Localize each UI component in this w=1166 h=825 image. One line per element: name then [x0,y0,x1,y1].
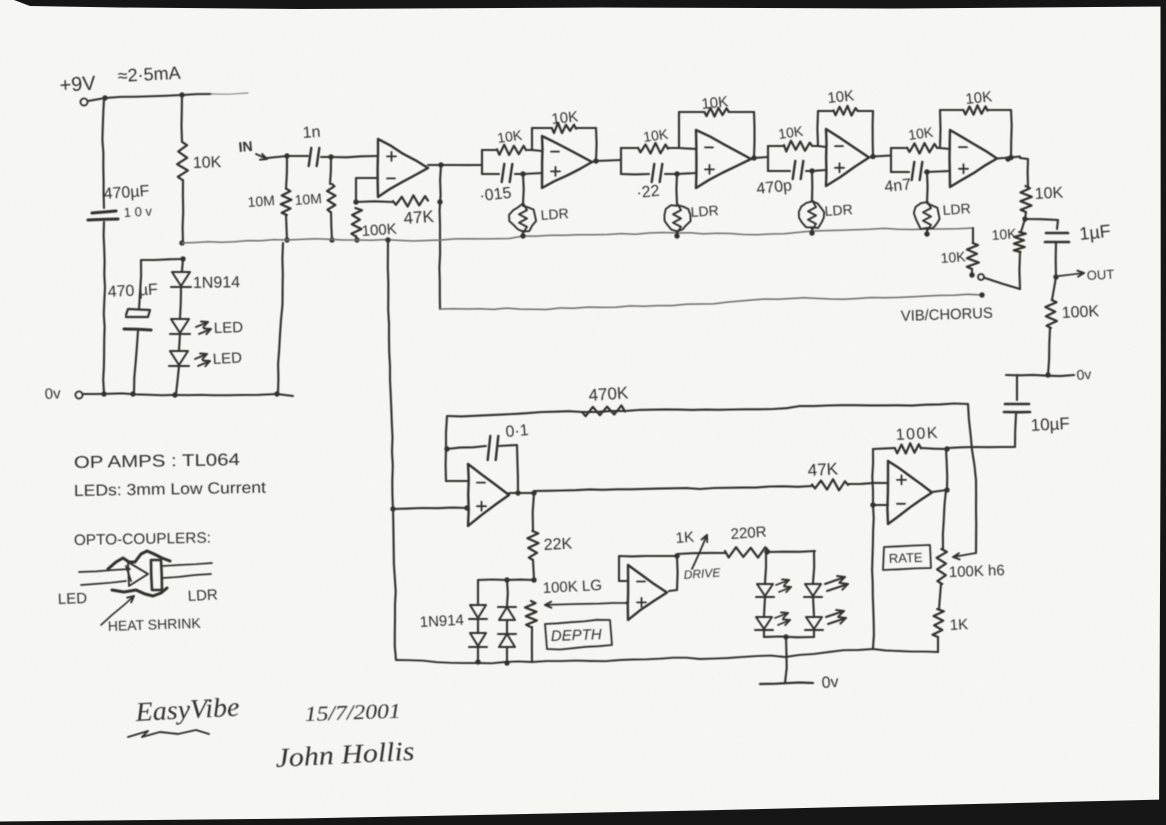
wire bus end to 10K mixA [972,228,974,243]
diode 1N914 A2 [469,633,487,647]
svg-text:LED: LED [58,590,88,608]
wire depth wiper to U7 plus [626,602,628,603]
wire divider vertical [872,449,874,648]
svg-text:OPTO-COUPLERS:: OPTO-COUPLERS: [74,530,211,549]
svg-text:1n: 1n [302,124,321,142]
junction depth node [531,577,536,582]
wire rail faint tail [211,93,248,94]
wire U5 fb left vertical [446,416,447,481]
svg-text:RATE: RATE [889,550,924,566]
stage 4 resistor 10K series [907,143,937,154]
resistor 10K bias [177,142,188,180]
wire 10K out bottom [1025,212,1026,219]
stage 2 junction plus-LDR [674,171,679,176]
svg-text:10M: 10M [294,190,322,208]
op-amp U5 integrator [468,464,509,526]
wire U6 minus to divider [873,504,888,506]
arrow IN [256,154,267,160]
junction bias bus start [179,240,184,245]
label LED D2 [214,319,244,337]
wire diode chain lead3 [179,334,180,350]
stage 2 junction out-fb [751,155,756,160]
label OUT [1086,267,1114,283]
label LDR opto [187,586,218,605]
label 100K schmitt [895,425,939,444]
svg-text:1µF: 1µF [1078,221,1111,244]
stage 3 label 10K feedback [827,87,855,107]
stage 2 wire fb rail left [679,111,705,113]
stage 3 wire LDR bottom lead [811,228,813,233]
wire cap 0.1 lead [447,446,486,449]
stage 1 wire cap to plus [515,173,542,174]
wire bias bus [182,228,973,243]
junction U1 out node [438,162,443,167]
box RATE [883,545,931,570]
resistor 470K [582,406,625,417]
stage 4 wire bottom path lead [891,171,909,173]
title EasyVibe [134,692,240,727]
label +9V [59,72,97,97]
svg-text:LED: LED [214,319,244,337]
opto sketch wires left [79,569,130,585]
label RATE [889,550,924,566]
diode 1N914 B1 [498,607,516,620]
stage 1 junction out-fb [593,158,598,163]
wire U5 out to 22K [533,493,534,531]
stage 4 label 10K feedback [965,88,993,108]
label 100K load [1061,303,1100,322]
wire LED B bottom [813,630,815,637]
stage 4 wire LDR bottom lead [926,229,928,234]
stage 3 junction out-fb [870,154,875,159]
label DEPTH [551,626,603,645]
stage 3 resistor 10K feedback [834,106,858,116]
svg-text:15/7/2001: 15/7/2001 [304,699,401,726]
svg-text:LDR: LDR [824,201,853,219]
label 10M first [247,192,275,210]
stage 2 wire LDR top lead [675,174,678,204]
op-amp U7 led driver [628,565,667,620]
wire 1uF to OUT [1055,243,1057,277]
junction 0V-bus-drop [274,391,279,396]
svg-text:10K: 10K [701,93,729,113]
stage 2 label ·22 [636,183,661,202]
LED B2 arrows [826,610,846,624]
LED D2 bias [170,319,190,334]
stage 4 junction LDR-bus [924,231,929,236]
wire fb node to 47K [356,200,393,203]
LED A2 arrows [775,612,790,625]
junction IN-10M1 [284,153,289,158]
op-amp stage 4 [950,130,998,187]
svg-text:1 0 v: 1 0 v [123,204,152,220]
svg-text:10K: 10K [991,225,1018,243]
stage 3 wire top path lead [768,145,784,147]
wire LED bottom rail [764,635,814,638]
stage 4 junction plus-LDR [924,169,929,174]
LED B1 [804,584,822,597]
capacitor 10uF [1004,404,1030,412]
stage 3 junction LDR-bus [809,230,814,235]
wire 1K to bottom bus [937,637,939,652]
wire 100K load to 0V [1048,328,1050,375]
svg-text:IN: IN [238,138,253,155]
stage 4 wire output [997,157,1020,159]
junction string A-bus [475,659,480,664]
wire dry signal drop [439,165,441,309]
wire LED B top lead [813,551,814,583]
svg-text:LDR: LDR [187,586,218,605]
wire IN to cap 1n [287,155,308,157]
stage 1 wire LDR top lead [522,174,525,204]
stage 4 junction out-fb [1008,155,1013,160]
svg-text:100K: 100K [361,221,397,240]
svg-text:470K: 470K [588,383,630,405]
svg-text:10K: 10K [193,154,222,172]
wire string B top lead [506,580,509,606]
stage 3 wire fb rail right [858,110,874,112]
label LED opto [58,590,88,608]
wire switch throw [985,278,1020,289]
LED D3 arrows [195,354,210,367]
stage 4 wire top path to minus [937,148,950,149]
svg-text:1K: 1K [675,529,695,547]
wire U1 output [428,164,481,166]
stage 4 wire top path lead [891,147,907,149]
wire 0V rail [83,393,293,396]
stage 3 label 470p [756,177,793,198]
svg-text:10K: 10K [551,108,579,128]
label 1uF [1078,221,1111,244]
stage 2 wire bottom path lead [621,173,649,175]
note optocouplers [74,530,211,549]
wire diode chain lead1 [182,259,183,271]
label 10K out series [1034,185,1064,203]
label 220R [730,524,767,543]
capacitor 470p stage 3 [793,161,804,179]
wire +9V rail [88,94,211,101]
capacitor 4n7 stage 4 [912,162,923,180]
svg-text:10K: 10K [965,88,993,108]
LED B2 [805,617,823,630]
label 100K rate [949,562,1005,581]
diode 1N914 bias [171,272,191,287]
wire 100K fb to out [921,448,947,449]
junction mixA bottom [969,272,974,277]
stage 1 resistor 10K feedback [552,123,576,133]
wire 47K to U6 plus [848,483,887,484]
svg-text:4n7: 4n7 [884,176,912,196]
resistor 100K buffer bias [351,208,362,236]
junction 10M2-bus [329,237,334,242]
wire C1 bottom lead [103,222,105,393]
svg-text:EasyVibe: EasyVibe [134,692,240,727]
junction U1 fb node [353,199,358,204]
svg-text:47K: 47K [807,459,839,480]
LED A2 [755,617,773,630]
LED D2 arrows [196,322,211,335]
label 0.1 [505,422,530,441]
wire 470K fb rail [448,411,625,416]
stage 1 junction LDR-bus [520,233,525,238]
junction 100K-bus [354,237,359,242]
stage 2 wire top path lead [621,147,638,149]
svg-text:0v: 0v [821,674,839,692]
svg-text:OP AMPS : TL064: OP AMPS : TL064 [74,450,240,472]
op-amp stage 3 [826,129,869,186]
capacitor 0.1 integrator [488,436,499,460]
svg-text:≈2·5mA: ≈2·5mA [117,63,181,86]
label 100K buffer [361,221,397,240]
stage 2 wire cap to plus [665,173,696,174]
label HEAT SHRINK [108,615,202,634]
junction U6 out [944,487,949,492]
label 22K [543,536,573,554]
svg-text:·22: ·22 [636,183,661,202]
junction rail-R-10K [179,92,184,97]
stage 1 wire bottom path lead [482,173,499,175]
wire U7 fb loop right [645,556,678,591]
resistor 100K output load [1045,300,1057,328]
arrow OUT [1059,271,1084,277]
svg-text:10M: 10M [247,192,275,210]
svg-text:+9V: +9V [59,72,97,97]
svg-text:10K: 10K [1034,185,1064,203]
stage 3 wire fb rail left [818,110,834,112]
stage 1 label ·015 [479,185,513,205]
LDR stage 4 [914,201,940,231]
junction chain-0V [172,392,177,397]
stage 3 wire input split [767,146,769,171]
wire R-10K bottom lead [182,180,185,243]
svg-text:1K: 1K [949,616,968,634]
wire U5 output [509,492,534,494]
svg-text:220R: 220R [730,524,767,543]
terminal 0V [75,391,82,398]
stage 3 label LDR [824,201,853,219]
stage 2 wire top path to minus [668,148,696,149]
LDR stage 3 [799,200,824,230]
svg-text:1N914: 1N914 [419,612,464,631]
wire vib-chorus line [440,294,982,309]
svg-text:22K: 22K [543,536,573,554]
resistor 220R [725,547,769,557]
svg-text:10µF: 10µF [1030,414,1070,435]
stage 4 label 4n7 [884,176,912,196]
svg-text:0·1: 0·1 [505,422,530,441]
junction diode chain top [180,256,185,261]
wire string B bottom [506,647,508,663]
label 1n [302,124,321,142]
label 470uF C2 [107,281,158,301]
wire 10M2 bottom lead [331,212,332,240]
junction LED string A top [764,549,769,554]
wire 10K mixB bottom [1018,252,1021,289]
stage 3 wire LDR top lead [811,171,813,201]
LED D3 bias [169,351,189,366]
opto sketch heatshrink outline [108,551,170,596]
stage 2 wire output [751,157,768,159]
junction bus-LFO drop [385,237,390,242]
arrow heatshrink [101,596,134,625]
junction U5 out cap [515,490,520,495]
junction U5 plus [464,505,469,510]
stage 3 wire top path to minus [812,146,826,147]
wire LFO bottom bus [396,649,938,663]
stage 4 wire fb right drop [1010,110,1013,157]
junction U5 out node [531,490,536,495]
wire U5 minus lead [446,480,468,482]
wire rail right drop [968,404,976,553]
LED A1 arrows [776,579,791,592]
svg-text:0v: 0v [44,385,61,403]
stage 2 wire input split [620,148,622,174]
wire LED B mid [813,597,814,616]
label 1K drive [675,529,695,547]
resistor 10K out series [1020,186,1031,212]
note leds [74,480,267,500]
stage 4 wire cap to plus [925,171,950,172]
stage 1 resistor 10K series [497,145,526,155]
stage 4 wire fb left [939,110,942,148]
wire 470K rail right [625,404,968,412]
stage 1 wire top path to minus [526,150,542,151]
wire 100K fb rail lfo [873,448,895,449]
svg-text:HEAT SHRINK: HEAT SHRINK [108,615,202,634]
wire string B mid [506,620,508,633]
op-amp U1 buffer [378,139,428,197]
wire string A mid [477,619,479,632]
resistor 100K rate pot [937,549,947,584]
stage 3 label 10K series [777,123,805,142]
resistor 10K mix B [1014,232,1026,252]
label 10V [123,204,152,220]
junction rail-C1 [102,95,107,100]
svg-text:LEDs: 3mm Low Current: LEDs: 3mm Low Current [74,480,267,500]
junction LED rail center [783,634,788,639]
label 470K [588,383,630,405]
label 1N914 bias [193,274,241,292]
stage 3 wire cap to plus [806,170,826,171]
capacitor C1 470uF plates [88,211,118,220]
wire R-10K top lead [180,95,183,142]
LED B1 arrows [825,576,848,591]
wire U7 minus loop [619,556,645,581]
svg-text:LDR: LDR [540,205,569,223]
resistor 10M first [281,189,292,215]
wire LED A bottom [763,630,765,637]
label LED D3 [212,349,242,368]
wire 1K drive pot body [677,553,725,554]
stage 2 wire fb left [678,112,680,148]
svg-text:LED: LED [212,349,242,368]
wire U6 output up [932,449,947,492]
wire depth pot bottom [531,627,533,661]
junction C1-0V [101,391,106,396]
junction load-0V [1045,372,1050,377]
label 47K buffer [403,207,435,228]
label IN [238,138,253,155]
title underline [128,730,209,737]
terminal +9V [80,98,87,105]
resistor 1K lfo [933,609,944,637]
box DEPTH [545,620,612,650]
svg-text:LDR: LDR [942,200,971,218]
wire 10uF to LFO bias [948,414,1016,448]
label 0V right [1076,366,1092,383]
stage 3 wire fb left [816,111,819,146]
wire 100K to bus [356,236,357,240]
svg-text:100K LG: 100K LG [542,577,602,597]
stage 2 junction LDR-bus [674,233,679,238]
stage 1 label 10K feedback [551,108,579,128]
label 10K mix B [991,225,1018,243]
terminal switch contact [978,274,984,280]
LED A1 [756,584,774,597]
wire IN to junction [267,156,287,158]
arrow drive wiper [692,535,707,569]
svg-text:470 µF: 470 µF [107,281,158,301]
label 47K lfo [807,459,839,480]
stage 2 wire LDR bottom lead [676,231,678,236]
op-amp U6 schmitt [887,461,932,524]
stage 2 label 10K series [642,126,670,145]
label 470uF [103,183,150,203]
stage 2 resistor 10K feedback [705,108,729,117]
svg-text:100K h6: 100K h6 [949,562,1005,581]
svg-text:·015: ·015 [479,185,513,205]
wire 0V rail right [1006,375,1074,376]
wire diode chain lead4 [176,366,179,394]
resistor 47K lfo [812,479,848,490]
stage 4 wire input split [890,148,892,172]
wire 1n to junction [321,156,331,158]
stage 2 label 10K feedback [701,93,729,113]
wire U1 minus out [356,178,378,202]
wire LED A top lead [765,552,766,583]
wire LED rail to ground [785,637,787,683]
stage 1 wire top path lead [482,149,497,151]
resistor 10K mix A [967,243,979,269]
resistor 22K [527,531,538,560]
stage 2 resistor 10K series [638,143,668,154]
junction fb-cap node [444,446,449,451]
LDR stage 2 [664,203,690,233]
svg-text:1N914: 1N914 [193,274,241,292]
scan edge bottom [0,800,1166,825]
stage 3 junction plus-LDR [809,168,814,173]
op-amp stage 2 [696,130,751,188]
wire cap 0.1 right [499,445,518,492]
label 2.5mA [117,63,181,86]
wire string A top lead [477,580,479,604]
resistor 47K buffer fb [393,195,428,206]
opto sketch LDR body [151,560,162,590]
wire 10M2 top lead [330,157,331,184]
junction OUT node [1053,274,1058,279]
wire U5 plus lead [393,508,467,509]
stage 1 wire fb left [531,128,533,150]
wire diode chain lead2 [180,288,181,318]
title signature [275,736,415,773]
junction stage4 out-fb extra [1005,156,1010,161]
svg-text:DRIVE: DRIVE [683,565,722,582]
svg-text:100K: 100K [1061,303,1100,322]
wire bus to LFO drop [388,240,396,660]
stage 2 wire fb rail right [729,111,755,113]
svg-text:OUT: OUT [1086,267,1114,283]
label 1K lfo [949,616,968,634]
